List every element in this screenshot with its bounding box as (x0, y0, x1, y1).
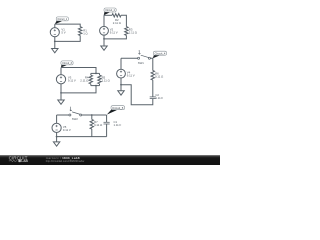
voltage source V4 (117, 69, 126, 78)
capacitor C2 (150, 97, 156, 99)
label C2 1.11 F (155, 93, 163, 100)
wire V4 bottom lead (120, 78, 122, 85)
wire R5 top lead (99, 73, 101, 75)
label V4 9.11 V (127, 71, 135, 78)
ground circuit 2 (101, 39, 107, 50)
voltage source V1 (50, 28, 59, 37)
wire top rail circuit 1 (55, 24, 80, 27)
junction node circuit 3 bottom (60, 92, 62, 94)
wire R4 top lead (90, 73, 92, 75)
wire top rail circuit 3 (61, 68, 96, 74)
label R1 1 ohm (83, 29, 87, 36)
junction parallel bottom (95, 85, 97, 87)
CircuitLab logo: zigzag (9, 160, 17, 162)
ground circuit 5 (53, 137, 59, 147)
node flag Circuit_4 (153, 51, 167, 58)
resistor R4 (89, 75, 92, 84)
junction R7 top (91, 114, 93, 116)
wire V2 top lead (103, 15, 105, 26)
wire top rail right circuit 4 (150, 58, 152, 70)
junction node circuit 1 bottom (54, 41, 56, 43)
wire R7 bottom lead (91, 129, 93, 137)
wire top rail left circuit 2 (104, 14, 112, 16)
ground circuit 4 (118, 85, 124, 95)
resistor R5 (98, 75, 101, 84)
label V1 5 V (61, 27, 65, 34)
wire bottom rail circuit 5 (57, 136, 107, 138)
wire R6 to C2 (152, 80, 154, 97)
wire R5 bottom lead (99, 84, 101, 86)
wire parallel bottom bar (91, 85, 100, 87)
resistor R7 (90, 119, 93, 129)
wire V3 bottom lead (60, 84, 62, 93)
svg-text:http://circuitlab.com/c5b8z9fm: http://circuitlab.com/c5b8z9fma3w (46, 159, 85, 163)
wire bottom rail circuit 1 (55, 36, 80, 42)
junction node circuit 2 bottom (103, 38, 105, 40)
resistor R6 (151, 71, 154, 81)
wire top rail right circuit 2 (121, 15, 126, 26)
label R7 9.11 ohm (94, 120, 102, 127)
resistor R3 (125, 27, 128, 36)
wire V4 top lead (120, 58, 122, 69)
wire top rail left circuit 5 (57, 114, 69, 116)
ground circuit 3 (58, 93, 64, 104)
label V3 9.11 V (68, 76, 76, 83)
voltage source V3 (56, 75, 65, 84)
wire V1 bottom lead (54, 37, 56, 42)
wire V5 top lead (56, 115, 58, 123)
wire V1 top lead (54, 24, 56, 28)
label R6 9.11 ohm (155, 71, 163, 78)
junction parallel top (95, 73, 97, 75)
wire R4 bottom lead (90, 84, 92, 86)
voltage source V2 (100, 26, 109, 35)
wire R7 top lead (91, 115, 93, 119)
svg-text:LAB: LAB (21, 159, 28, 163)
wire V2 bottom lead (103, 35, 105, 39)
switch SW2 (69, 107, 82, 116)
voltage source V5 (52, 123, 61, 132)
switch SW1 (138, 50, 151, 59)
label V2 9.11 V (110, 27, 118, 34)
node flag Circuit_1 (55, 17, 69, 24)
wire C1 top lead (106, 115, 108, 122)
node flag Circuit_5 (107, 106, 125, 115)
footer bar (0, 155, 220, 165)
wire top rail right circuit 5 (82, 114, 107, 116)
node flag Circuit_2 (104, 8, 117, 15)
wire bottom rail circuit 3 (61, 86, 96, 93)
capacitor C1 (104, 122, 110, 124)
node flag Circuit_3 (61, 61, 73, 68)
junction node circuit 4 bottom (120, 84, 122, 86)
CircuitLab logo: LAB (18, 159, 20, 162)
wire bottom rail circuit 2 (104, 35, 126, 39)
label R4 2.11 ohm (80, 76, 89, 83)
label V5 9.11 V (63, 125, 71, 132)
junction node circuit 5 bottom (56, 136, 58, 138)
wire top rail left circuit 4 (121, 57, 138, 59)
wire V3 top lead (60, 68, 62, 75)
label R3 2.11 ohm (129, 28, 137, 35)
ground circuit 1 (52, 41, 58, 52)
wire parallel top bar (91, 72, 100, 74)
label C1 1.11 F (114, 120, 122, 127)
resistor R2 (112, 14, 121, 17)
label R2 2.11 ohm (113, 18, 121, 25)
label R5 2.11 ohm (102, 76, 110, 83)
wire bottom path circuit 4 (121, 85, 153, 105)
resistor R1 (79, 27, 82, 36)
wire C1 bottom lead (106, 124, 108, 136)
wire V5 bottom lead (56, 133, 58, 137)
